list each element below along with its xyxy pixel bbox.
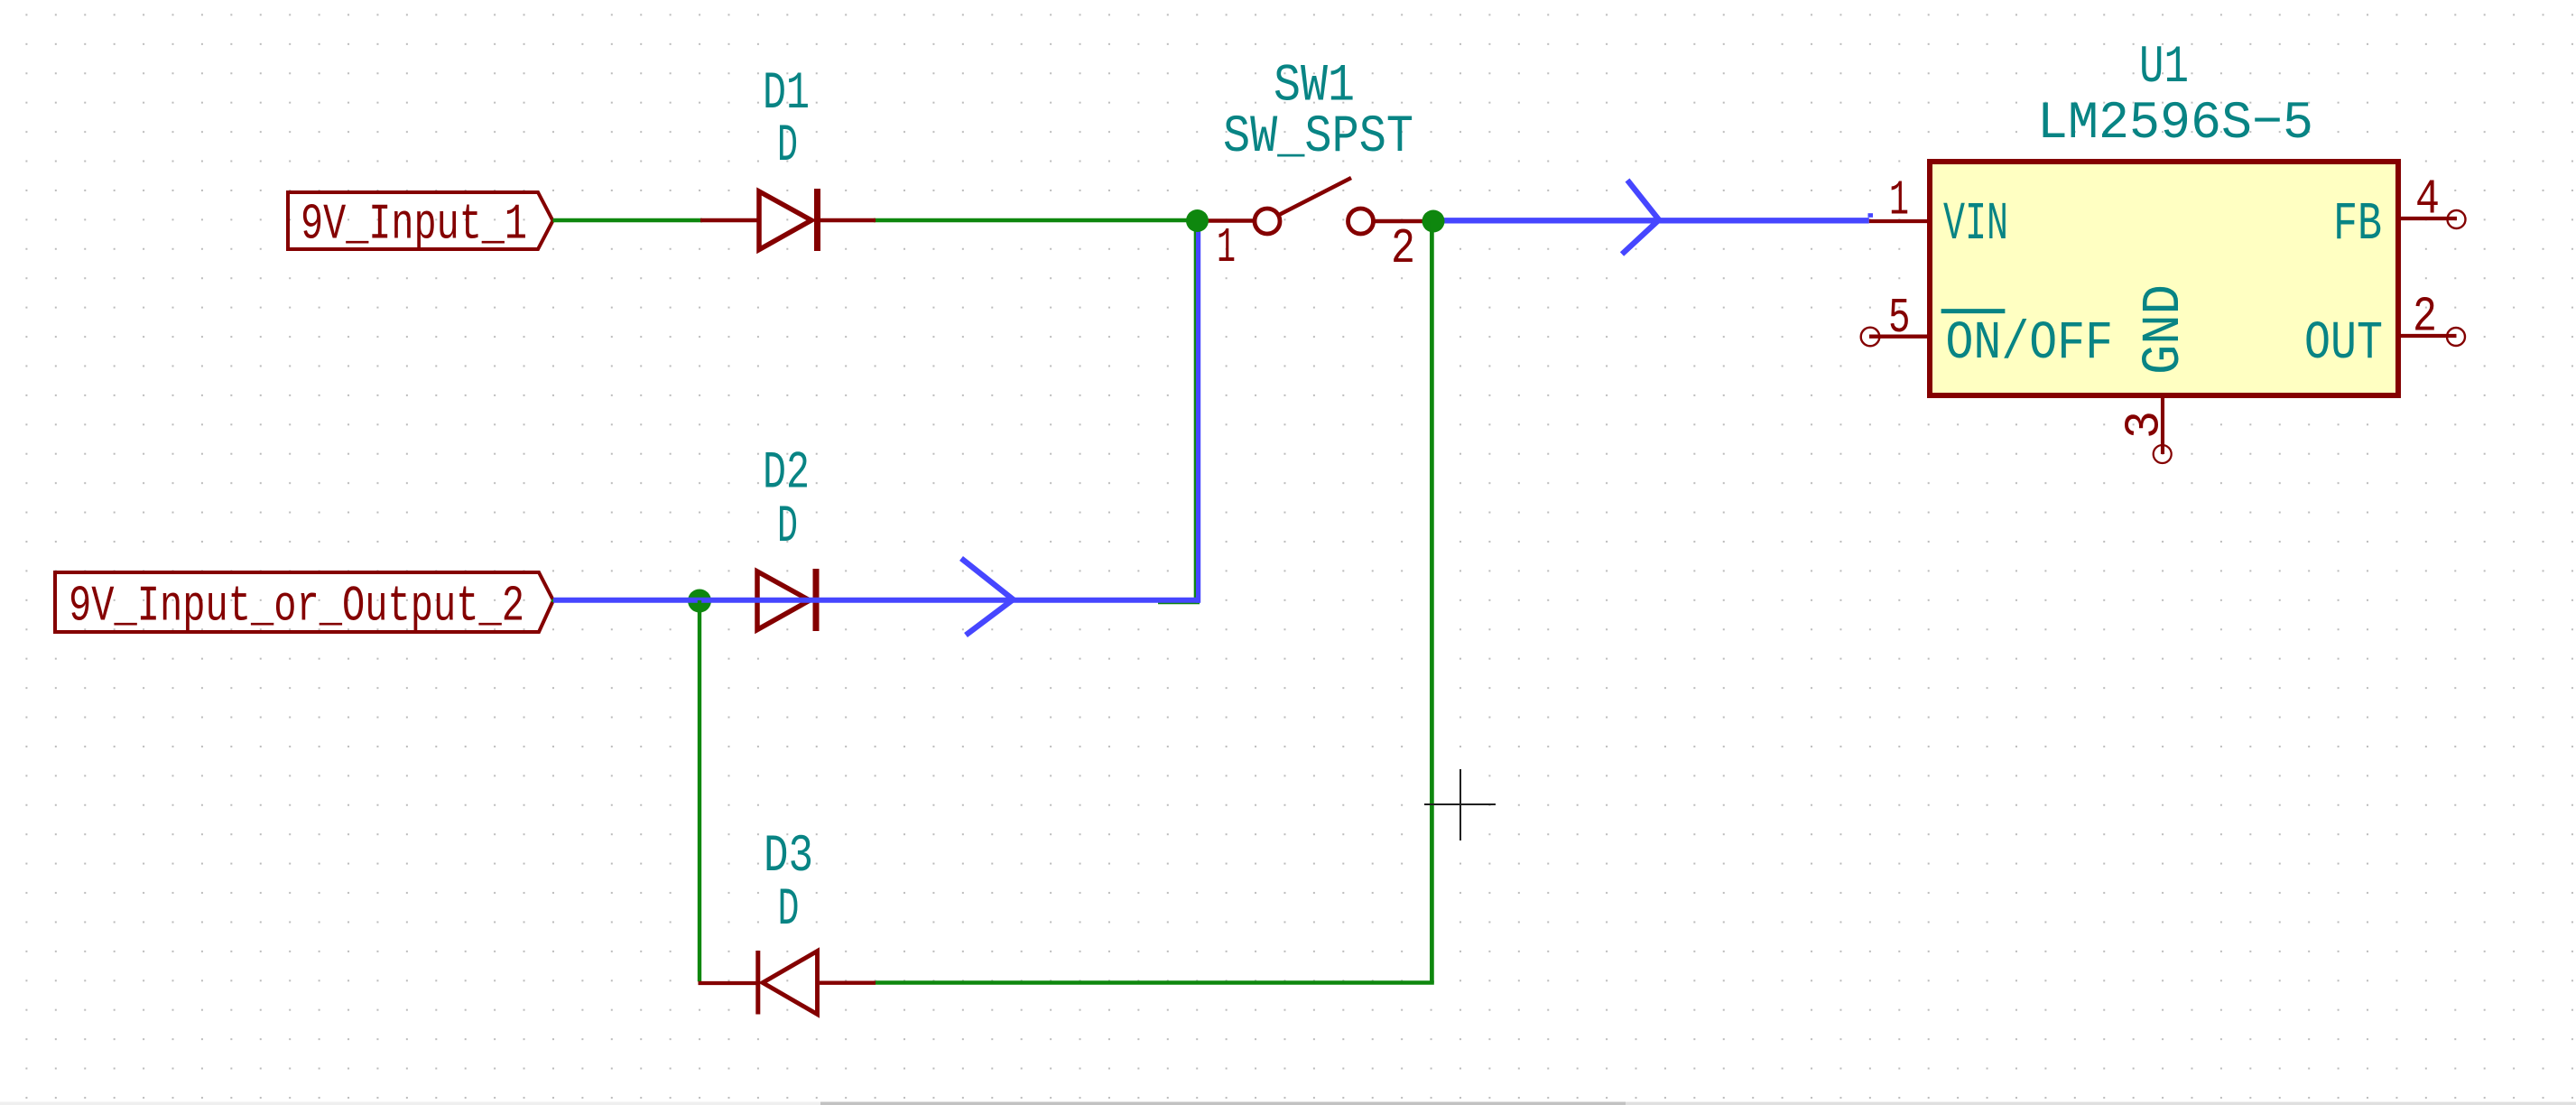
svg-text:D: D [778, 881, 800, 940]
svg-text:SW1: SW1 [1274, 58, 1355, 116]
svg-text:1: 1 [1217, 219, 1236, 276]
switch SW1 [1197, 58, 1433, 278]
pin 4 FB [2333, 171, 2466, 255]
svg-text:4: 4 [2415, 171, 2440, 227]
svg-text:9V_Input_or_Output_2: 9V_Input_or_Output_2 [69, 578, 524, 636]
svg-text:2: 2 [2413, 289, 2437, 346]
diode D3 [699, 828, 876, 1015]
wire label1 to D1 [553, 218, 703, 222]
arrow on VIN wire [1622, 181, 1659, 255]
svg-text:GND: GND [2134, 284, 2194, 375]
svg-text:VIN: VIN [1943, 194, 2008, 255]
wire riser junction B down to D3 row [1430, 221, 1434, 983]
svg-text:LM2596S−5: LM2596S−5 [2037, 95, 2313, 153]
hierarchical label 9V_Input_or_Output_2 [55, 572, 553, 636]
wire junction C down [698, 600, 701, 981]
wire (blue) junction B to U1 VIN [1433, 218, 1869, 223]
svg-text:U1: U1 [2139, 39, 2189, 97]
IC U1 LM2596S-5 [1930, 39, 2398, 395]
pin 1 VIN [1869, 172, 2008, 255]
svg-text:5: 5 [1888, 290, 1911, 347]
cursor crosshair [1424, 769, 1496, 840]
svg-text:D2: D2 [763, 445, 810, 504]
svg-text:D3: D3 [764, 828, 813, 887]
wire (blue) vertical corner to junction A [1196, 218, 1200, 603]
scrollbar [0, 1102, 2576, 1105]
svg-text:9V_Input_1: 9V_Input_1 [301, 196, 527, 254]
arrow on D2 wire [961, 559, 1014, 636]
hierarchical label 9V_Input_1 [288, 192, 553, 254]
wire (blue) label2 to corner [553, 598, 1200, 603]
green wire sliver at corner [1158, 601, 1200, 604]
svg-text:ON/OFF: ON/OFF [1946, 313, 2114, 374]
junction A [1186, 209, 1209, 232]
wire D3 to riser [876, 980, 1434, 985]
svg-text:3: 3 [2117, 411, 2173, 439]
pin 5 ON/OFF [1861, 290, 2113, 374]
blue wire end mark [1868, 213, 1874, 218]
diode D1 [700, 65, 876, 251]
diode D2 [757, 445, 816, 632]
green wire sliver vertical [1194, 222, 1197, 603]
wire D1 to junction A [874, 218, 1198, 222]
svg-text:2: 2 [1391, 220, 1415, 277]
junction C [688, 590, 711, 613]
svg-text:D: D [777, 498, 798, 557]
junction B [1422, 210, 1445, 233]
svg-text:FB: FB [2333, 194, 2382, 255]
svg-text:1: 1 [1889, 172, 1909, 229]
node at label2 tip [551, 599, 555, 603]
pin 2 OUT [2304, 289, 2465, 374]
svg-text:SW_SPST: SW_SPST [1223, 108, 1413, 167]
pin 3 GND [2117, 284, 2194, 463]
svg-text:OUT: OUT [2304, 313, 2383, 374]
svg-text:D: D [777, 117, 798, 176]
svg-text:D1: D1 [763, 65, 810, 124]
